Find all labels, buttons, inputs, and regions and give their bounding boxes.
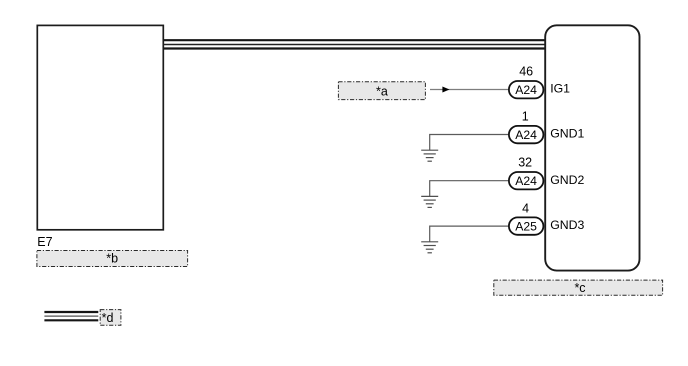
svg-text:A25: A25 — [515, 220, 537, 234]
svg-text:A24: A24 — [515, 128, 537, 142]
svg-text:46: 46 — [519, 64, 533, 78]
ground G1 — [421, 150, 438, 161]
wire bundle middle line — [164, 44, 546, 46]
wire GND3 — [430, 226, 509, 242]
svg-text:4: 4 — [522, 201, 529, 215]
svg-text:E7: E7 — [37, 235, 52, 249]
ECU box — [545, 25, 639, 270]
label box *b — [37, 251, 188, 267]
wire IG1 — [430, 89, 508, 91]
terminal A25 pin 4 — [509, 217, 544, 234]
svg-text:1: 1 — [522, 109, 529, 123]
label box *c — [494, 280, 663, 295]
svg-text:*a: *a — [376, 84, 388, 98]
label box *a — [338, 82, 425, 100]
terminal A24 pin 46 — [509, 81, 544, 98]
ground G3 — [421, 242, 438, 253]
wire bundle bottom line — [164, 47, 546, 49]
legend shielded-wire sample middle line — [44, 315, 98, 317]
svg-text:A24: A24 — [515, 174, 537, 188]
wire bundle top line — [164, 39, 546, 41]
ground G2 — [421, 196, 438, 207]
svg-text:32: 32 — [518, 156, 532, 170]
arrowhead — [442, 87, 449, 93]
svg-text:GND1: GND1 — [550, 127, 584, 141]
svg-text:A24: A24 — [515, 83, 537, 97]
svg-text:GND3: GND3 — [550, 218, 584, 232]
wire GND1 — [430, 135, 509, 151]
terminal A24 pin 1 — [509, 126, 544, 143]
junction connector block E7 — [37, 25, 163, 229]
svg-text:*b: *b — [106, 252, 118, 266]
legend shielded-wire sample bottom line — [44, 319, 98, 321]
label box *d — [100, 310, 121, 326]
terminal A24 pin 32 — [509, 172, 544, 189]
svg-text:*d: *d — [102, 311, 114, 325]
legend shielded-wire sample top line — [44, 311, 98, 313]
svg-text:*c: *c — [574, 281, 585, 295]
svg-text:IG1: IG1 — [550, 82, 570, 96]
wire GND2 — [430, 181, 509, 197]
svg-text:GND2: GND2 — [550, 173, 584, 187]
